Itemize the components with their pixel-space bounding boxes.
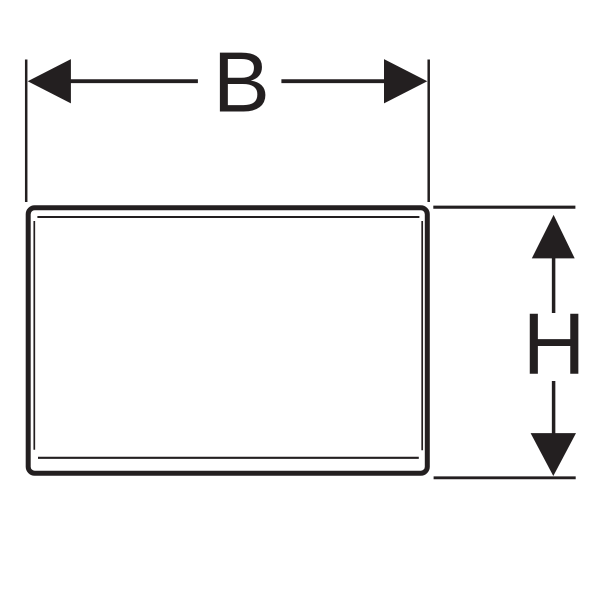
svg-text:B: B xyxy=(213,36,270,131)
svg-text:H: H xyxy=(523,296,586,393)
